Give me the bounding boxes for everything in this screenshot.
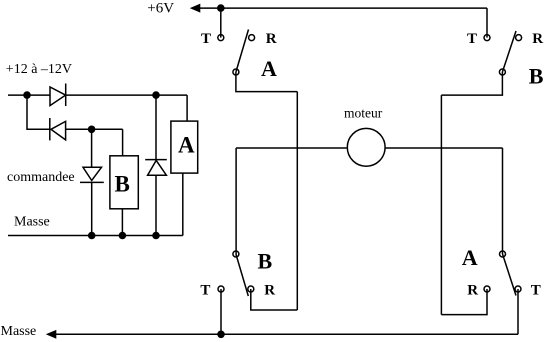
diode D4 (points up) bbox=[145, 160, 167, 176]
wire: +6V top rail bbox=[200, 7, 488, 9]
svg-text:B: B bbox=[115, 172, 130, 197]
wire: commandee junction down to D3 bbox=[91, 129, 93, 167]
label moteur bbox=[344, 105, 383, 120]
wire: junction down to T contact of top-left switch bbox=[220, 8, 222, 37]
label R of bottom-right switch bbox=[467, 283, 478, 299]
pole contact of top-left switch A bbox=[233, 69, 239, 75]
label T of bottom-left switch bbox=[200, 283, 210, 299]
contact R of top-right switch B bbox=[516, 35, 522, 41]
label A of bottom-right switch bbox=[462, 245, 478, 270]
wire: rail corner down to T contact of top-right switch bbox=[486, 8, 488, 37]
wire: bus bottom to R contact of bottom-right switch bbox=[441, 289, 487, 315]
contact T of bottom-right switch A bbox=[515, 286, 521, 292]
wire: bus bottom to R contact of bottom-left switch bbox=[251, 289, 297, 310]
wire: top-left pole down then right to bus bbox=[236, 72, 297, 92]
wire: D1 cathode to box A corner bbox=[66, 94, 187, 96]
svg-text:T: T bbox=[467, 31, 477, 47]
svg-text:T: T bbox=[200, 283, 210, 299]
label T of top-left switch bbox=[201, 31, 211, 47]
motor M1 bbox=[347, 128, 385, 166]
diode D1 (points right) bbox=[50, 84, 66, 107]
wire: box A bottom down to bottom rail bbox=[182, 173, 184, 235]
contact T of bottom-left switch B bbox=[218, 286, 224, 292]
svg-text:+12 à –12V: +12 à –12V bbox=[6, 62, 72, 77]
label +6V bbox=[147, 0, 174, 16]
wire: input junction down to D2 bbox=[27, 95, 50, 129]
pole contact of bottom-right switch A bbox=[500, 251, 506, 257]
contact R of bottom-left switch B bbox=[248, 286, 254, 292]
label B of top-right switch bbox=[529, 64, 544, 89]
svg-text:B: B bbox=[258, 248, 273, 273]
svg-text:A: A bbox=[261, 56, 277, 81]
node: bottom rail dot under box B bbox=[119, 232, 127, 240]
wire: bottom-left T contact down to ground rail bbox=[220, 289, 222, 334]
wire: corner down into box B bbox=[122, 129, 124, 156]
node: bottom rail dot under D3 bbox=[88, 232, 96, 240]
wire: vertical bus x=297.3 bbox=[296, 92, 298, 310]
label R of top-left switch bbox=[266, 31, 277, 47]
diode D2 (points left) bbox=[50, 118, 66, 140]
wire: bottom-right T contact down to ground rail bbox=[517, 289, 519, 334]
pole contact of top-right switch B bbox=[499, 69, 505, 75]
diode D3 (points down) bbox=[80, 167, 104, 182]
label B inside box B bbox=[115, 172, 130, 197]
lever of bottom-right switch A bbox=[503, 254, 517, 296]
wire: bottom Masse ground rail bbox=[56, 333, 518, 335]
pole contact of bottom-left switch B bbox=[233, 251, 239, 257]
wire: box B bottom to bottom rail bbox=[121, 209, 123, 236]
svg-text:T: T bbox=[531, 283, 541, 299]
svg-text:Masse: Masse bbox=[14, 215, 50, 230]
contact T of top-left switch A bbox=[218, 35, 224, 41]
label commandee bbox=[7, 170, 75, 185]
node: junction dot commandee bbox=[88, 126, 96, 134]
label T of bottom-right switch bbox=[531, 283, 541, 299]
label A inside box A bbox=[178, 132, 195, 157]
svg-text:R: R bbox=[532, 31, 543, 47]
label +12 à -12V bbox=[6, 62, 72, 77]
wire: motor wire right segment bbox=[385, 147, 502, 149]
svg-text:R: R bbox=[266, 31, 277, 47]
svg-text:R: R bbox=[264, 283, 275, 299]
label A of top-left switch bbox=[261, 56, 277, 81]
label R of bottom-left switch bbox=[264, 283, 275, 299]
wire: left circuit bottom Masse rail bbox=[8, 235, 183, 237]
box A (coil A) bbox=[171, 121, 198, 173]
label R of top-right switch bbox=[532, 31, 543, 47]
contact R of bottom-right switch A bbox=[484, 286, 490, 292]
svg-text:R: R bbox=[467, 283, 478, 299]
arrowhead: Masse rail arrow bbox=[46, 330, 57, 339]
wire: motor right lead down to bottom-right pole bbox=[502, 148, 504, 254]
label Masse (bottom rail) bbox=[1, 324, 37, 339]
node: +6V junction dot bbox=[217, 4, 225, 12]
lever of bottom-left switch B bbox=[236, 254, 248, 296]
node: bottom rail dot under D4 bbox=[152, 232, 160, 240]
svg-text:T: T bbox=[201, 31, 211, 47]
node: junction dot above diode D4 bbox=[152, 91, 160, 99]
label T of top-right switch bbox=[467, 31, 477, 47]
lever of top-left switch A bbox=[236, 30, 249, 73]
svg-text:+6V: +6V bbox=[147, 0, 174, 16]
label B of bottom-left switch bbox=[258, 248, 273, 273]
wire: top corner down into box A bbox=[186, 95, 188, 121]
contact R of top-left switch A bbox=[249, 35, 255, 41]
arrowhead: +6V rail arrow bbox=[190, 4, 201, 13]
wire: motor wire left segment bbox=[236, 147, 347, 149]
box B (coil B) bbox=[110, 156, 138, 209]
svg-text:B: B bbox=[529, 64, 544, 89]
wire: D3 cathode down to bottom rail bbox=[91, 182, 93, 235]
node: ground rail junction dot bbox=[217, 331, 225, 339]
svg-text:moteur: moteur bbox=[344, 105, 383, 120]
node: input junction dot bbox=[23, 91, 31, 99]
contact T of top-right switch B bbox=[484, 35, 490, 41]
svg-text:A: A bbox=[462, 245, 478, 270]
svg-text:A: A bbox=[178, 132, 195, 157]
wire: left circuit input lead bbox=[8, 94, 50, 96]
wire: motor left lead down to bottom-left pole bbox=[235, 148, 237, 254]
wire: D2 anode to box B corner bbox=[66, 128, 123, 130]
wire: top-right pole down then left to bus bbox=[441, 72, 502, 95]
svg-text:commandee: commandee bbox=[7, 170, 75, 185]
label Masse (left circuit) bbox=[14, 215, 50, 230]
wire: top junction down to D4 bbox=[155, 95, 157, 160]
wire: vertical bus x=441.4 bbox=[440, 95, 442, 315]
lever of top-right switch B bbox=[502, 31, 516, 72]
wire: D4 anode down to bottom rail bbox=[155, 175, 157, 235]
svg-text:Masse: Masse bbox=[1, 324, 37, 339]
